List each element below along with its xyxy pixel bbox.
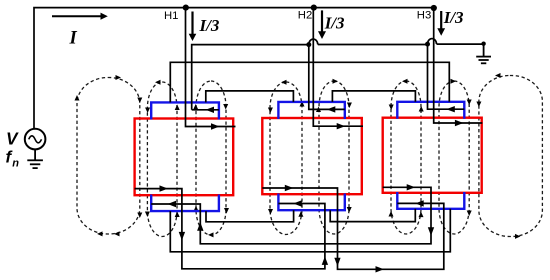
- junction dot B3: [425, 42, 430, 47]
- wire: E2 red2 down to bus R-right to F3 up: [262, 188, 444, 269]
- wire: hop over A3: [427, 39, 436, 45]
- wire: D bus u1 to u2 blue tops: [206, 91, 294, 103]
- flux loop 1b: [196, 81, 226, 235]
- junction dot B2: [306, 42, 311, 47]
- wire: D bus u2 to u3 blue tops: [332, 91, 415, 102]
- core (red) unit 2: [262, 118, 362, 194]
- winding (blue) unit 2 top: [278, 102, 344, 119]
- node H2: [311, 5, 317, 11]
- wire: B1 into blue right: [192, 109, 219, 111]
- ground (neutral, right): [476, 44, 491, 64]
- flux arrows: [75, 73, 521, 239]
- wire: G1 blue1 bottom to bus Q to Q3 up: [170, 209, 450, 252]
- svg-text:I: I: [69, 29, 78, 49]
- current arrow I/3 (1): [191, 12, 193, 35]
- svg-text:V: V: [6, 128, 19, 148]
- wire: top feeder: [34, 8, 434, 129]
- node H3: [431, 5, 437, 11]
- svg-text:I/3: I/3: [443, 8, 464, 27]
- ground (source): [27, 149, 43, 168]
- wire: connector u2 to u3 blue bottoms: [330, 209, 415, 222]
- wire: hop over A2: [309, 39, 318, 45]
- wire: E1 red1 to bus R-left to F2 up: [135, 189, 325, 269]
- winding (blue) unit 1 bottom: [151, 195, 219, 212]
- wire arrowheads: [160, 106, 464, 273]
- winding (blue) unit 2 bottom: [278, 194, 344, 211]
- core (red) unit 1: [135, 119, 234, 196]
- flux loop 1a: [147, 82, 177, 237]
- wire: phase A2 from H2: [313, 8, 363, 127]
- current arrow I/3 (2): [321, 10, 323, 32]
- core (red) unit 3: [383, 118, 482, 193]
- flux loop 3b: [439, 81, 469, 234]
- svg-text:H3: H3: [417, 10, 431, 22]
- flux loop 2a: [270, 82, 302, 235]
- junction dot ground: [481, 42, 485, 46]
- current arrow I/3 (3): [440, 11, 442, 29]
- flux loop 2b: [319, 81, 349, 234]
- svg-text:I/3: I/3: [199, 16, 220, 35]
- winding (blue) unit 3 top: [397, 102, 464, 119]
- wire: B2 drop into blue right: [309, 45, 345, 110]
- current arrow I: [52, 15, 101, 17]
- node H1: [183, 5, 189, 11]
- svg-text:n: n: [12, 157, 19, 169]
- wire: C bus u1 blue top to u3 blue top: [170, 62, 449, 102]
- flux loop left outer: [77, 78, 140, 235]
- wire: B3 drop into blue right: [428, 44, 465, 109]
- wire: phase A1 from H1: [186, 8, 236, 127]
- wire: neutral bus to ground with hops: [192, 44, 484, 110]
- svg-text:H1: H1: [164, 10, 178, 22]
- winding (blue) unit 1 top: [151, 102, 219, 119]
- wire: F1 blue1-left down to bus P to E3 up: [151, 187, 431, 244]
- svg-text:I/3: I/3: [324, 14, 345, 33]
- svg-text:H2: H2: [298, 10, 312, 22]
- wire: connector u1 to u2 blue bottoms: [206, 210, 294, 222]
- voltage source V fn: [25, 129, 46, 150]
- wire: phase A3 from H3: [434, 8, 483, 123]
- flux loop 3a: [391, 81, 421, 234]
- wires solid: [34, 8, 484, 270]
- winding (blue) unit 3 bottom: [397, 192, 464, 209]
- flux loop right outer: [479, 76, 543, 237]
